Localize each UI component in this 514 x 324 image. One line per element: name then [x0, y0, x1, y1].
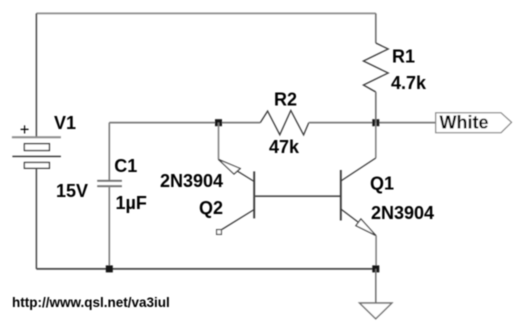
wire C1 bottom lead: [108, 186, 110, 269]
wire mid rail left: [109, 122, 260, 124]
capacitor C1: [97, 181, 122, 186]
wire Q1 collector lead: [375, 123, 377, 158]
svg-text:Q2: Q2: [199, 198, 223, 218]
svg-text:4.7k: 4.7k: [391, 73, 427, 93]
wire R1 top lead: [375, 13, 377, 43]
junction node bottom right: [372, 265, 379, 272]
svg-text:Q1: Q1: [370, 174, 394, 194]
wire bottom rail: [36, 268, 375, 270]
svg-text:http://www.qsl.net/va3iul: http://www.qsl.net/va3iul: [12, 295, 170, 310]
junction node bottom C1: [106, 265, 113, 272]
pin marker Q2 collector: [217, 230, 222, 235]
svg-text:R1: R1: [392, 47, 415, 67]
resistor R1: [363, 43, 388, 92]
svg-text:15V: 15V: [56, 181, 88, 201]
svg-text:V1: V1: [54, 113, 76, 133]
wire mid rail right: [309, 122, 436, 124]
svg-text:White: White: [440, 113, 489, 133]
svg-text:2N3904: 2N3904: [371, 203, 434, 223]
wire base link Q2 to Q1: [254, 195, 341, 197]
ground: [360, 303, 392, 319]
svg-text:+: +: [20, 121, 30, 139]
wire left rail V1 top lead: [35, 13, 37, 137]
wire top rail: [36, 12, 375, 14]
transistor Q2: [219, 159, 255, 229]
resistor R2: [260, 111, 309, 135]
net label White: [436, 113, 512, 133]
wire left rail bottom lead: [35, 168, 37, 269]
svg-text:47k: 47k: [269, 137, 300, 157]
wire Q2 emitter lead: [218, 123, 220, 160]
wire C1 top lead: [108, 123, 110, 181]
wire R1 bottom lead: [375, 92, 377, 123]
svg-text:1µF: 1µF: [116, 193, 147, 213]
battery V1: [12, 137, 61, 168]
svg-text:2N3904: 2N3904: [160, 171, 223, 191]
wire Q1 emitter lead: [375, 236, 377, 269]
svg-text:R2: R2: [274, 90, 297, 110]
junction node R2 left: [215, 119, 222, 126]
junction node R2 right: [372, 119, 379, 126]
wire ground lead: [375, 269, 377, 303]
svg-text:C1: C1: [114, 156, 137, 176]
transistor Q1: [341, 158, 376, 236]
